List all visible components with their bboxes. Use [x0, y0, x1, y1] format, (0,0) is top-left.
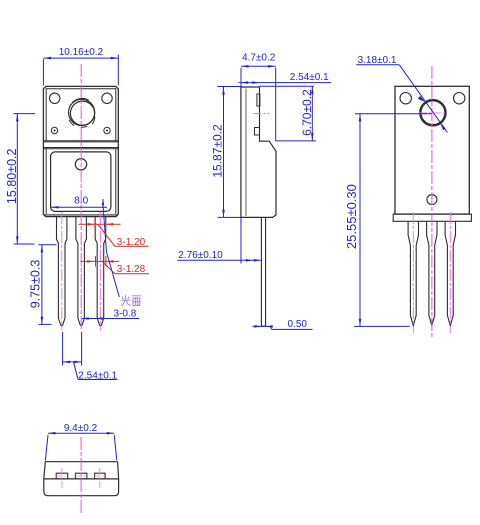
- svg-text:3-1.20: 3-1.20: [117, 237, 146, 248]
- svg-text:6.70±0.2: 6.70±0.2: [300, 89, 314, 136]
- pin 2 back: [427, 221, 437, 325]
- dimension 3.18±0.1: [356, 65, 447, 133]
- dimension 2.54±0.1 (front bottom): [63, 332, 118, 380]
- svg-text:0.50: 0.50: [288, 319, 308, 330]
- dimension 10.16±0.2: [43, 55, 118, 86]
- front center line pin3: [99, 212, 101, 331]
- svg-text:2.54±0.1: 2.54±0.1: [290, 72, 329, 83]
- label 光面 (drawn strokes): [121, 296, 140, 306]
- back center line pin1: [412, 212, 414, 333]
- dimension 9.75±0.3: [39, 245, 57, 325]
- front view molded body inner outline: [51, 152, 111, 212]
- svg-text:3-0.8: 3-0.8: [114, 308, 137, 319]
- side view hole center line: [254, 113, 270, 115]
- svg-text:25.55±0.30: 25.55±0.30: [344, 184, 359, 249]
- front view body outline: [43, 86, 118, 216]
- side view extension line (front face, long): [240, 68, 242, 264]
- svg-text:15.87±0.2: 15.87±0.2: [210, 124, 224, 178]
- svg-text:2.76±0.10: 2.76±0.10: [178, 250, 223, 261]
- svg-text:4.7±0.2: 4.7±0.2: [242, 53, 276, 64]
- bottom view pin center lines: [56, 468, 107, 490]
- front view tab step lines: [43, 140, 118, 142]
- front view corner hole right: [102, 93, 112, 103]
- front view body bottom inner edge: [44, 214, 118, 216]
- back view bottom strip: [393, 214, 471, 221]
- dimension 4.7±0.2: [241, 65, 276, 141]
- dimension 15.80±0.2: [14, 114, 36, 244]
- dimension 3-1.20 (red): [79, 219, 149, 247]
- bottom view center line main: [80, 437, 82, 513]
- back center line pin3: [449, 212, 451, 333]
- front view rivet right: [104, 127, 110, 133]
- back view corner hole right: [454, 93, 465, 104]
- dimension 25.55±0.30: [354, 114, 432, 327]
- pin 1 front: [57, 217, 67, 326]
- svg-text:3.18±0.1: 3.18±0.1: [358, 55, 397, 66]
- svg-text:2.54±0.1: 2.54±0.1: [78, 370, 117, 381]
- svg-text:8.0: 8.0: [74, 195, 88, 206]
- dimension 2.76±0.10: [177, 259, 260, 262]
- svg-text:9.4±0.2: 9.4±0.2: [64, 423, 98, 434]
- back view bottom hole: [427, 195, 437, 205]
- front view tab inner outline: [46, 89, 116, 141]
- side view lead: [261, 218, 265, 327]
- back center line main: [431, 66, 433, 337]
- dimension 8.0: [51, 199, 107, 209]
- dimension 2.54±0.1 (side): [239, 81, 332, 84]
- dimension 9.4±0.2: [45, 432, 117, 461]
- bottom view outline: [44, 462, 119, 496]
- dimension 0.50: [253, 325, 313, 329]
- front center line pin1: [61, 212, 63, 331]
- side view notch upper: [257, 94, 260, 106]
- svg-text:10.16±0.2: 10.16±0.2: [59, 47, 104, 58]
- side view inner front line: [245, 89, 247, 217]
- back view corner hole left: [400, 93, 411, 104]
- back view body outline: [395, 86, 469, 214]
- dimension 6.70±0.2: [260, 86, 317, 141]
- dimension 3-0.8: [82, 317, 139, 320]
- back hole center line horizontal: [419, 112, 447, 114]
- bottom view pin section 3: [95, 473, 106, 479]
- dimension 15.87±0.2: [218, 87, 241, 218]
- bottom view pin section 2: [75, 473, 87, 479]
- svg-text:9.75±0.3: 9.75±0.3: [29, 260, 43, 309]
- front view molded body center hole: [75, 159, 86, 170]
- front center line main: [80, 64, 82, 331]
- dimension 3-1.28 (red): [81, 256, 149, 274]
- front view inner side lines: [45, 149, 47, 214]
- svg-text:3-1.28: 3-1.28: [117, 264, 146, 275]
- pin 3 back: [445, 221, 455, 325]
- leader to 光面 label: [103, 208, 119, 298]
- bottom view pin section 1: [56, 473, 67, 479]
- svg-text:15.80±0.2: 15.80±0.2: [5, 148, 19, 204]
- front view rivet left: [51, 127, 57, 133]
- front view mounting hole: [69, 99, 95, 125]
- pin 3 front: [95, 217, 106, 326]
- side view body outline: [241, 87, 276, 217]
- pin 2 front: [76, 217, 87, 326]
- side view notch lower: [255, 128, 260, 136]
- back view mounting hole: [421, 100, 446, 125]
- front view corner hole left: [50, 93, 60, 103]
- pin 1 back: [408, 221, 418, 325]
